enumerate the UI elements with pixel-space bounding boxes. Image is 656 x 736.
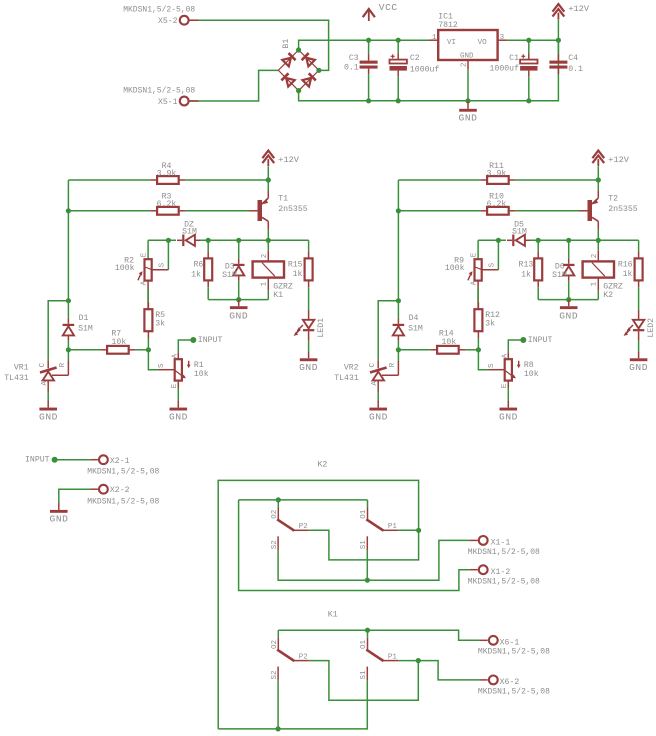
resistor R12: [474, 309, 482, 331]
svg-text:MKDSN1,5/2-5,08: MKDSN1,5/2-5,08: [123, 86, 195, 95]
svg-text:C2: C2: [410, 54, 420, 63]
wire LED2 to gnd: [638, 341, 640, 352]
relay contact P2 pin stub: [294, 529, 309, 531]
svg-text:VR1: VR1: [14, 364, 29, 373]
svg-text:GND: GND: [299, 362, 318, 373]
connector pad X5-1: [180, 97, 189, 106]
wire R2 A green part: [147, 288, 149, 303]
svg-text:VR2: VR2: [344, 364, 359, 373]
potentiometer R9 body: [475, 259, 482, 280]
svg-text:1000uf: 1000uf: [410, 65, 440, 75]
resistor R15: [305, 258, 313, 280]
wire R11 to +12V junction: [515, 179, 598, 181]
svg-text:GND: GND: [459, 112, 478, 123]
junction R14 left: [396, 347, 401, 352]
ground symbol VR1: [39, 408, 57, 411]
wire R4 to +12V junction: [185, 179, 268, 181]
wire collector T1: [267, 230, 269, 241]
capacitor C3: [360, 61, 378, 64]
pin stub X1-2: [469, 569, 478, 571]
wire gnd stem LED1: [308, 352, 310, 358]
ground symbol R1: [170, 408, 188, 411]
svg-text:3.9k: 3.9k: [487, 169, 507, 179]
potentiometer R8 body: [505, 359, 512, 380]
svg-text:2n5355: 2n5355: [278, 205, 308, 214]
svg-text:1k: 1k: [623, 269, 633, 279]
svg-text:X6-1: X6-1: [500, 638, 520, 647]
wire left rail R11/R10 column: [397, 180, 399, 319]
supply symbol +12V T1: [262, 151, 274, 159]
svg-text:S1M: S1M: [78, 324, 93, 333]
bridge B1 diode bottom-left: [281, 73, 288, 80]
wire INPUT to X2-1: [55, 459, 91, 461]
capacitor C4: [549, 61, 567, 64]
svg-text:100k: 100k: [115, 263, 135, 273]
relay contact O2 pin stub: [277, 508, 279, 520]
junction R2 wiper node: [166, 238, 171, 243]
pin stub X5-1: [189, 100, 199, 102]
junction D1 top: [66, 298, 71, 303]
wire D4 bottom: [397, 341, 399, 350]
diode D3 S1M: [233, 264, 245, 266]
svg-text:LED2: LED2: [647, 318, 656, 338]
wire C1 bottom pin: [528, 76, 530, 101]
wire D3 top: [238, 240, 240, 258]
svg-text:R: R: [59, 362, 67, 367]
svg-text:R: R: [389, 362, 397, 367]
svg-text:S1: S1: [360, 540, 368, 550]
junction bridge bottom vertex: [296, 88, 301, 93]
resistor R16: [635, 258, 643, 280]
svg-text:2: 2: [261, 254, 269, 259]
svg-text:K1: K1: [273, 291, 283, 300]
wire gnd stem R8: [507, 401, 509, 408]
svg-text:R7: R7: [111, 329, 121, 338]
svg-text:10k: 10k: [194, 369, 209, 379]
wire left rail R4/R3 column: [67, 180, 69, 319]
ground symbol under IC1: [459, 109, 477, 112]
junction R12 bottom: [476, 347, 481, 352]
svg-text:1k: 1k: [293, 269, 303, 279]
junction K1 S2 bottom: [276, 726, 281, 731]
wire K2 O branch to X1-2: [239, 500, 470, 591]
svg-text:3: 3: [500, 34, 505, 42]
wire coil pin1: [267, 291, 269, 300]
relay contact P1 pin stub: [383, 660, 398, 662]
svg-text:R1: R1: [194, 361, 204, 370]
junction bridge right vertex: [316, 68, 321, 73]
svg-text:10k: 10k: [112, 337, 127, 347]
connector pad X6-1: [489, 636, 498, 645]
pin stub R1 S: [159, 369, 175, 371]
svg-text:VCC: VCC: [379, 2, 398, 13]
pin stub R1 A: [177, 352, 179, 359]
svg-text:2: 2: [461, 62, 469, 67]
svg-text:TL431: TL431: [4, 374, 29, 383]
svg-text:D6: D6: [555, 262, 565, 271]
wire +12V stem top: [557, 20, 559, 40]
junction IC1 GND pin bottom: [465, 98, 470, 103]
wire C2 bottom pin: [397, 76, 399, 101]
svg-text:INPUT: INPUT: [25, 455, 50, 464]
svg-text:VI: VI: [447, 39, 456, 47]
wire R12 bottom: [477, 338, 479, 350]
svg-text:100k: 100k: [445, 263, 465, 273]
junction D6 bottom gnd: [566, 297, 571, 302]
resistor R5: [144, 309, 152, 331]
svg-text:3k: 3k: [155, 319, 165, 329]
svg-text:X2-2: X2-2: [110, 486, 130, 495]
svg-text:A: A: [371, 381, 379, 386]
svg-text:TL431: TL431: [334, 374, 359, 383]
junction K2 S1: [365, 578, 370, 583]
svg-text:T2: T2: [608, 194, 618, 203]
junction R9 wiper node: [496, 238, 501, 243]
svg-text:X5-1: X5-1: [158, 98, 178, 107]
svg-text:GND: GND: [499, 412, 518, 423]
svg-text:O2: O2: [271, 640, 279, 649]
svg-text:1: 1: [432, 34, 437, 42]
svg-text:O1: O1: [360, 509, 368, 519]
wire D3 bottom: [238, 281, 240, 300]
wire C3 top pin: [368, 40, 370, 54]
svg-text:X6-2: X6-2: [500, 678, 520, 687]
svg-text:0.1: 0.1: [344, 64, 359, 73]
pin stub R8 A: [507, 352, 509, 359]
svg-text:MKDSN1,5/2-5,08: MKDSN1,5/2-5,08: [468, 548, 540, 557]
IC1 pin 2 GND stub: [467, 60, 469, 70]
wire gnd stem LED2: [638, 352, 640, 358]
svg-text:A: A: [140, 280, 148, 285]
wire X2-2 to gnd: [59, 489, 91, 503]
wire coil pin1: [597, 291, 599, 300]
transistor T1 2n5355: [258, 200, 263, 221]
svg-text:C3: C3: [349, 54, 359, 63]
relay contact blade O1-P1: [366, 650, 383, 661]
wire K1 P to X6-2: [418, 661, 479, 680]
svg-text:P1: P1: [388, 523, 398, 531]
ground symbol coil K2: [560, 306, 578, 309]
bridge rectifier B1 outline: [278, 50, 319, 91]
wire R15 to LED1: [308, 287, 310, 310]
junction C4 top / +12V: [556, 38, 561, 43]
svg-text:R16: R16: [618, 260, 633, 269]
svg-text:1000uf: 1000uf: [490, 64, 520, 74]
supply symbol VCC: [363, 9, 375, 17]
svg-text:D1: D1: [79, 314, 89, 323]
svg-text:S: S: [158, 363, 166, 368]
wire +12V stem T1: [267, 167, 269, 181]
connector pad X6-2: [489, 676, 498, 685]
wire K2 P loop to K1 S: [218, 480, 418, 729]
wire R10 to T2 base: [515, 210, 579, 212]
ground symbol VR2: [369, 408, 387, 411]
junction K2 P common: [416, 528, 421, 533]
svg-text:S1M: S1M: [512, 228, 527, 237]
wire R3 to T1 base: [185, 210, 249, 212]
svg-text:S2: S2: [271, 670, 279, 679]
resistor R6: [204, 258, 212, 280]
relay contact blade O1-P1: [366, 519, 383, 530]
svg-text:VO: VO: [478, 39, 488, 47]
wire X5-2 to bridge right vertex: [189, 20, 329, 70]
wire VR C branch: [48, 301, 68, 361]
wire R16 top: [638, 240, 640, 251]
wire K1 O-line: [278, 630, 479, 640]
pin stub base T2: [579, 210, 588, 212]
svg-text:GND: GND: [229, 311, 248, 322]
svg-text:LED1: LED1: [317, 318, 326, 338]
ground symbol X2-2: [50, 510, 68, 513]
wire R2 A to R5: [147, 281, 149, 310]
junction K1 P common: [416, 658, 421, 663]
wire C4 top pin: [557, 40, 559, 54]
wire emitter T1: [267, 180, 269, 191]
wire C2 top pin: [397, 40, 399, 53]
svg-text:MKDSN1,5/2-5,08: MKDSN1,5/2-5,08: [87, 468, 159, 477]
junction K1 O1: [365, 628, 370, 633]
wire R8 A to INPUT: [508, 340, 523, 352]
wire VR C branch: [378, 301, 398, 361]
junction C3 top: [366, 38, 371, 43]
wire R6 bottom: [207, 287, 209, 299]
pin stub X2-1: [91, 459, 98, 461]
wire IC1 GND pin down: [467, 70, 469, 101]
IC1 pin 1 VI stub: [428, 39, 438, 41]
pin stub X6-2: [479, 679, 487, 681]
svg-text:GND: GND: [629, 362, 648, 373]
junction bridge top vertex: [296, 47, 301, 52]
svg-text:1k: 1k: [521, 270, 531, 280]
potentiometer R1 body: [175, 359, 182, 380]
svg-text:P2: P2: [299, 654, 308, 662]
wire R4 row: [68, 179, 150, 181]
pin stub R8 E: [507, 381, 509, 388]
wire K1 P2 route: [309, 661, 418, 701]
svg-text:R14: R14: [439, 329, 454, 338]
junction R10 left: [396, 208, 401, 213]
capacitor C2 polarized: [390, 60, 407, 64]
resistor R13: [534, 258, 542, 280]
svg-text:S1: S1: [360, 670, 368, 680]
svg-text:GND: GND: [50, 513, 69, 524]
junction emitter T1 +12V: [266, 177, 271, 182]
wire coil row: [148, 239, 176, 241]
svg-text:X1-1: X1-1: [491, 539, 511, 548]
junction C1 top: [526, 38, 531, 43]
bridge B1 diode bottom-right: [309, 73, 316, 80]
shunt regulator VR1 TL431: [40, 368, 57, 373]
ground symbol LED1: [300, 358, 318, 361]
LED LED2: [638, 310, 640, 320]
voltage regulator IC1 7812 box: [438, 30, 497, 60]
svg-text:K1: K1: [328, 610, 338, 619]
svg-text:E: E: [470, 252, 478, 257]
connector pad X2-2: [99, 485, 108, 494]
svg-text:7812: 7812: [438, 21, 458, 30]
pin stub X6-1: [479, 639, 487, 641]
wire IC1 gnd stem: [467, 101, 469, 109]
junction coil K2 pin2: [596, 238, 601, 243]
resistor R10: [487, 207, 509, 215]
wire R11 row: [398, 179, 480, 181]
svg-text:R8: R8: [524, 361, 534, 370]
junction K2 O2: [276, 497, 281, 502]
wire R13 bottom: [537, 287, 539, 299]
wire R7 left: [68, 349, 100, 351]
supply symbol +12V T2: [592, 151, 604, 159]
wire IC1 VO to +12V rail: [507, 39, 558, 41]
svg-text:1: 1: [260, 281, 268, 286]
svg-text:A: A: [41, 381, 49, 386]
diode D5 S1M: [512, 235, 514, 247]
wire gnd stem VR2: [377, 401, 379, 408]
capacitor C1 polarized: [520, 60, 537, 64]
relay coil K1 GZRZ: [253, 261, 284, 277]
junction D4 top: [396, 298, 401, 303]
wire K2 O1 pin green: [367, 500, 369, 508]
pin stub R1 E: [177, 381, 179, 388]
relay coil K2 GZRZ: [583, 261, 614, 277]
wire K1 S2 down: [277, 681, 279, 729]
wire coil ground rail: [208, 299, 268, 301]
diode D4 S1M: [393, 324, 405, 326]
junction coil K1 pin2: [266, 238, 271, 243]
resistor R11: [487, 176, 509, 184]
pin stub R8 S: [489, 369, 505, 371]
wire coil ground rail: [538, 299, 598, 301]
pin stub X1-1: [469, 539, 478, 541]
wire coil pin2: [597, 240, 599, 250]
wire C3 bottom pin: [368, 74, 370, 101]
svg-text:1k: 1k: [191, 270, 201, 280]
junction C3 bottom: [366, 98, 371, 103]
pin stub R9 S: [482, 269, 498, 271]
wire R2 E pin up: [147, 240, 149, 259]
ground symbol LED2: [630, 358, 648, 361]
svg-text:INPUT: INPUT: [528, 336, 553, 345]
resistor R14: [437, 346, 459, 354]
svg-text:R13: R13: [519, 261, 534, 270]
svg-text:3k: 3k: [485, 319, 495, 329]
svg-text:S: S: [488, 363, 496, 368]
junction R7 left: [66, 347, 71, 352]
relay contact S1 pin stub: [366, 667, 368, 681]
wire R8 E to gnd: [507, 388, 509, 401]
connector pad X5-2: [180, 16, 189, 25]
bridge B1 diode top-right: [302, 53, 309, 60]
connector pad X1-2: [479, 565, 488, 574]
relay contact S2 pin stub: [277, 667, 279, 681]
wire bridge top to VCC rail: [299, 40, 429, 50]
diode D6 S1M: [563, 264, 575, 266]
net stub INPUT: [190, 337, 196, 343]
svg-text:1: 1: [590, 281, 598, 286]
relay contact O1 pin stub: [367, 508, 369, 520]
wire gnd stem VR1: [47, 401, 49, 408]
wire R1 A to INPUT: [178, 340, 193, 352]
junction R5 bottom: [146, 347, 151, 352]
wire R7 right: [135, 349, 148, 351]
relay contact P2 pin stub: [294, 660, 309, 662]
wire K2 S1 down: [366, 550, 368, 580]
pin stub R2 S: [152, 269, 168, 271]
ground symbol coil K1: [230, 306, 248, 309]
wire R1 E to gnd: [177, 388, 179, 401]
svg-text:GND: GND: [369, 412, 388, 423]
wire R5 bottom: [147, 338, 149, 350]
net stub INPUT: [520, 337, 526, 343]
wire K1 S bottom rail: [218, 681, 367, 729]
connector pad X2-1: [99, 455, 108, 464]
wire X5-1 to bridge left vertex: [189, 70, 279, 101]
svg-text:S1M: S1M: [552, 271, 567, 280]
net stub INPUT bottom: [52, 457, 58, 463]
relay contact blade O2-P2: [277, 519, 294, 530]
svg-text:10k: 10k: [524, 369, 539, 379]
wire R9 A to R12: [477, 281, 479, 310]
resistor R4: [157, 176, 179, 184]
svg-text:6.2k: 6.2k: [157, 199, 177, 209]
wire K2 S-line: [278, 540, 469, 580]
svg-text:IC1: IC1: [438, 12, 453, 21]
wire R12 node to R8 wiper: [478, 350, 488, 370]
svg-text:GND: GND: [460, 52, 474, 60]
ground symbol R8: [500, 408, 518, 411]
junction emitter T2 +12V: [596, 177, 601, 182]
svg-text:O2: O2: [271, 510, 279, 519]
pin stub VR C: [377, 360, 379, 368]
junction D3 top: [236, 238, 241, 243]
wire R16 to LED2: [638, 287, 640, 310]
svg-text:X2-1: X2-1: [110, 457, 130, 466]
junction D6 top: [566, 238, 571, 243]
svg-text:+12V: +12V: [568, 4, 589, 14]
wire R6 top: [207, 240, 209, 251]
wire coil row 2: [529, 239, 639, 241]
svg-text:MKDSN1,5/2-5,08: MKDSN1,5/2-5,08: [87, 497, 159, 506]
wire +12V stem T2: [597, 167, 599, 181]
pin stub base T1: [249, 210, 258, 212]
IC1 pin 3 VO stub: [498, 39, 508, 41]
relay contact O2 pin stub: [277, 638, 279, 650]
wire D1 bottom: [67, 341, 69, 350]
wire D6 top: [568, 240, 570, 258]
svg-text:R12: R12: [485, 311, 500, 320]
svg-text:3.9k: 3.9k: [157, 169, 177, 179]
svg-text:S1M: S1M: [222, 271, 237, 280]
svg-text:K2: K2: [603, 291, 613, 300]
relay contact P1 pin stub: [383, 529, 398, 531]
wire coil pin2: [267, 240, 269, 250]
wire VR A to gnd: [47, 392, 49, 401]
svg-text:E: E: [140, 252, 148, 257]
svg-text:R15: R15: [288, 260, 303, 269]
pin stub X2-2: [91, 488, 98, 490]
wire K1 O1 pin green: [367, 630, 369, 638]
resistor R3: [157, 207, 179, 215]
wire LED1 to gnd: [308, 341, 310, 352]
wire K2 P1 route: [398, 529, 419, 531]
wire coil row 2: [199, 239, 309, 241]
svg-text:C4: C4: [568, 54, 578, 63]
wire R9 E pin up: [477, 240, 479, 259]
bridge B1 diode top-left: [289, 53, 296, 60]
shunt regulator VR2 TL431: [370, 368, 387, 373]
wire R3 row: [68, 210, 150, 212]
junction R6 top: [206, 238, 211, 243]
wire emitter T2: [597, 180, 599, 191]
